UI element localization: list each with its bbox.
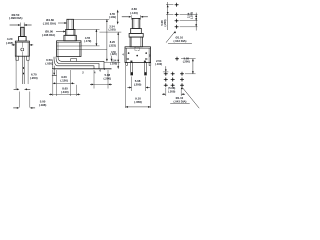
view2 body internal line [57, 45, 81, 47]
svg-text:(.181 DIA): (.181 DIA) [43, 21, 56, 25]
view3 neck [130, 37, 142, 47]
view2 body internal line 2 [57, 48, 81, 50]
svg-text:8.20: 8.20 [110, 40, 116, 44]
view2 terminal hump detail [70, 59, 72, 62]
pad K3 [175, 19, 179, 23]
view2 terminal top arrow [111, 56, 113, 59]
svg-text:(.100): (.100) [155, 62, 162, 66]
view3 dim 9.10 [125, 66, 127, 108]
svg-text:(.043 DIA): (.043 DIA) [174, 39, 187, 43]
svg-text:(.165): (.165) [6, 41, 14, 45]
view2 leader 5.00 [56, 31, 63, 33]
terminal foot line [52, 75, 57, 77]
svg-text:(.100): (.100) [108, 27, 115, 31]
dim M lower [117, 32, 119, 69]
pad L c182.0 r73.8 [180, 72, 184, 76]
svg-text:(.140): (.140) [130, 11, 138, 15]
view2 leader 4.60 [58, 22, 65, 24]
svg-text:(.200): (.200) [104, 76, 112, 80]
footprint K stubs [180, 14, 198, 16]
footprint K left dim 5.08 [167, 2, 169, 30]
view3 dim 5.08 [131, 77, 133, 92]
view3 dim line plunger [122, 16, 129, 18]
pad L c172.7 r85.2 [171, 83, 175, 87]
view2 base line [52, 68, 112, 70]
svg-text:(.020): (.020) [110, 53, 116, 56]
stub mid level [100, 31, 122, 33]
footprint L hole callout [183, 88, 200, 109]
footprint K right dim 2.54 [195, 13, 197, 31]
view2 stub collar top [75, 28, 100, 30]
svg-text:(.126): (.126) [60, 79, 68, 83]
view3 body [125, 47, 151, 63]
view2 stub internal 2 [81, 48, 107, 50]
svg-text:(.358): (.358) [134, 100, 142, 104]
svg-text:(.200): (.200) [168, 89, 175, 93]
view2 bent terminals staircase [54, 57, 104, 69]
view3 hidden center detail [135, 47, 140, 50]
view3 body dots [128, 52, 130, 54]
pad L c165.8 r79.5 [164, 78, 168, 82]
view1 bottom view ext lines [18, 92, 20, 108]
view1 pin [22, 56, 24, 84]
view1 dim line top [10, 24, 18, 26]
pad L c172.7 r79.5 [171, 78, 175, 82]
svg-text:(.200): (.200) [163, 19, 167, 26]
svg-text:(.020): (.020) [45, 62, 53, 66]
svg-text:(.179): (.179) [84, 39, 91, 43]
pad K1 [175, 3, 179, 7]
svg-text:(.200): (.200) [134, 83, 142, 87]
view2 collar [66, 29, 75, 35]
view3 collar [131, 28, 142, 33]
pad K4 [175, 25, 179, 29]
view3 bottom nubs [130, 61, 132, 63]
view2 ext lines bottom [52, 70, 54, 96]
svg-text:(.323): (.323) [109, 43, 116, 47]
svg-text:(.340): (.340) [61, 90, 69, 94]
view2 stub body internal [81, 45, 100, 47]
pad L c182.0 r85.2 [180, 83, 184, 87]
view2 dim 5.08 [93, 70, 95, 89]
view1 body circle [21, 48, 24, 51]
view2 plunger [67, 19, 74, 29]
view1 width arrows [12, 44, 15, 46]
view3 pins [131, 63, 133, 76]
svg-text:(.200): (.200) [183, 60, 190, 64]
view3 plunger [132, 18, 140, 28]
view1 body [15, 41, 29, 56]
svg-text:(.196): (.196) [39, 103, 47, 107]
view1 plunger [21, 27, 25, 36]
view1 bottom tabs [16, 56, 19, 60]
view2 stub plunger top [73, 18, 109, 20]
view2 dim vertical B overall height [106, 19, 108, 61]
footprint L bottom dim (5.08) [165, 88, 167, 96]
pad K2 [175, 13, 179, 17]
view1 collar [19, 37, 27, 42]
view2 left edge [52, 60, 54, 69]
dim 3.55 upper [117, 10, 119, 24]
svg-text:(.100): (.100) [110, 61, 117, 65]
view2 dim vertical A [95, 29, 97, 46]
view3 side tabs [126, 63, 128, 66]
view1 ext lines [15, 57, 17, 89]
view3 bottom corner marks [127, 58, 129, 59]
svg-text:(.100): (.100) [189, 12, 193, 19]
pad L c165.8 r85.2 [164, 83, 168, 87]
svg-text:(.139): (.139) [109, 15, 116, 19]
svg-text:(.263): (.263) [30, 76, 38, 80]
pad L c172.7 r73.8 [171, 72, 175, 76]
view2 body [57, 41, 81, 57]
view2 bezel [64, 35, 76, 41]
svg-text:(.043 DIA): (.043 DIA) [174, 100, 187, 104]
view3 flange [129, 33, 143, 37]
pad L c165.8 r73.8 [164, 72, 168, 76]
pad L c182.0 r79.5 [180, 78, 184, 82]
svg-text:(.098 DIA): (.098 DIA) [9, 16, 22, 20]
view2 stub terminal level [104, 61, 120, 63]
svg-text:(.196 DIA): (.196 DIA) [42, 33, 55, 37]
pad L top [175, 57, 179, 61]
